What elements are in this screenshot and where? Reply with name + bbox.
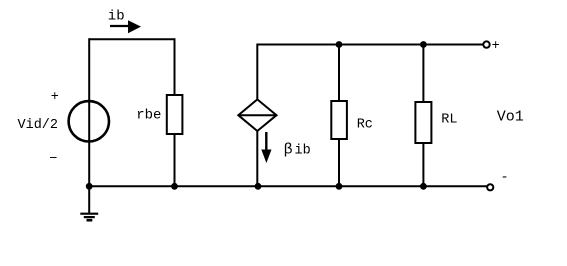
wire bottom rail [89,185,487,187]
wire dependent source bottom segment [256,131,258,186]
resistor Rc [331,101,347,139]
wire left vertical (through source V1) [88,38,90,186]
svg-text:rbe: rbe [136,108,161,124]
wire dependent source top to rail [257,45,483,100]
svg-text:+: + [51,90,59,105]
wire RL top segment [422,45,424,104]
dependent source middle bar [238,114,276,116]
junction dot source bottom [86,183,93,190]
junction dot RL top [420,41,427,48]
junction dot dependent source bottom [255,183,262,190]
ground lead [88,186,90,213]
wire RL bottom segment [422,143,424,186]
current arrow beta-ib [261,132,271,163]
svg-text:−: − [49,152,57,167]
dependent current source B1 (diamond) [238,99,276,131]
svg-text:ib: ib [295,144,311,159]
svg-text:ib: ib [108,9,125,25]
resistor RL [415,102,431,143]
junction dot Rc bottom [336,183,343,190]
wire top-left rail (source top to rbe top) [89,38,174,40]
wire rbe bottom segment [174,134,176,186]
resistor rbe [167,95,183,134]
svg-text:RL: RL [441,112,457,127]
ground symbol [80,214,98,221]
svg-text:Vo1: Vo1 [497,108,524,125]
svg-text:β: β [284,141,293,158]
svg-text:+: + [492,39,500,54]
wire rbe top segment [174,38,176,96]
svg-text:Rc: Rc [357,117,373,132]
voltage source Vid/2 [69,101,109,141]
svg-text:-: - [501,171,509,186]
junction dot rbe bottom [171,183,178,190]
svg-text:Vid/2: Vid/2 [18,118,59,133]
junction dot RL bottom [420,183,427,190]
terminal + (open circle) [483,41,489,47]
terminal - (open circle) [487,184,493,190]
junction dot Rc top [336,41,343,48]
wire Rc bottom segment [338,139,340,186]
wire Rc top segment [338,45,340,103]
current arrow ib [110,20,141,33]
